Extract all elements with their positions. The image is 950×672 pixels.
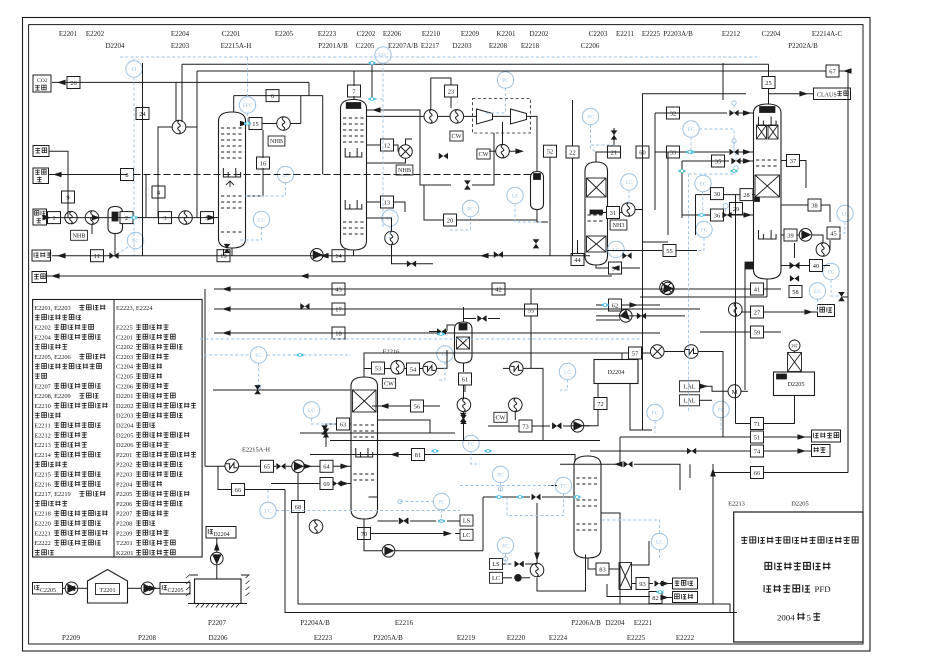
svg-text:51: 51 <box>754 434 760 441</box>
valve at 627,255.7 <box>622 252 631 259</box>
svg-text:57: 57 <box>632 350 639 357</box>
vessel C2203 <box>585 162 608 265</box>
svg-text:C2205: C2205 <box>356 42 375 50</box>
stream box flare 2 <box>32 272 47 283</box>
svg-text:PFD: PFD <box>815 584 831 594</box>
stream box drain <box>812 445 831 457</box>
wire flare2 line <box>46 275 612 277</box>
stream box purified gas <box>33 168 49 184</box>
stream flag 33 <box>667 146 680 158</box>
svg-text:35: 35 <box>715 158 721 165</box>
stream flag 69 <box>320 478 333 490</box>
signal FC704 link <box>676 238 704 251</box>
stream flag 8 <box>121 169 134 181</box>
instrument bubble PC <box>497 72 513 88</box>
valve at 519.2,564 <box>515 561 524 568</box>
svg-text:E2224: E2224 <box>549 634 568 642</box>
wire flag39 links <box>781 234 784 236</box>
heat exchanger at 429.7,368.4 <box>423 362 437 376</box>
instrument bubble LC <box>651 533 667 549</box>
signal LC268 top <box>267 490 269 502</box>
wire E2218 bottom <box>463 363 465 372</box>
svg-text:LC: LC <box>492 575 500 582</box>
valve at 794.5,278.5 <box>790 275 799 282</box>
signal LC817 link <box>817 299 819 312</box>
wire x322 drop <box>322 96 324 175</box>
svg-text:CW: CW <box>452 133 462 140</box>
svg-text:5: 5 <box>807 612 812 622</box>
column C2204 small packing <box>757 125 767 139</box>
stream flag 72 <box>594 398 607 410</box>
svg-text:40: 40 <box>813 263 819 270</box>
signal valve652 cluster <box>591 125 615 146</box>
valve at 536,243.8 <box>533 239 540 248</box>
wire flag12 line <box>367 144 382 146</box>
svg-text:P2208: P2208 <box>138 634 156 642</box>
stream flag 74 <box>751 445 764 457</box>
valve at 304.9,306.4 <box>300 303 309 310</box>
svg-text:P2202A/B: P2202A/B <box>788 42 818 50</box>
wire x695 drop <box>695 195 697 235</box>
svg-text:PFF: PFF <box>792 345 798 349</box>
svg-text:61: 61 <box>462 376 468 383</box>
drum D2205 claus gas separator <box>774 372 815 396</box>
instrument bubble FC <box>433 493 449 509</box>
signal blue y174 row <box>689 173 737 175</box>
signal LC444 link <box>437 362 445 380</box>
signal LC135 link <box>115 247 128 256</box>
vessel D2202 <box>531 172 544 210</box>
svg-text:P2206A/B: P2206A/B <box>571 619 601 627</box>
wire valve to C2203 <box>596 151 608 153</box>
signal PC505 drop <box>484 88 506 113</box>
instrument bubble LC <box>253 211 269 227</box>
stream flag 40 <box>810 260 823 272</box>
svg-text:E2223, E2224: E2223, E2224 <box>116 305 153 312</box>
svg-text:LC: LC <box>258 218 265 224</box>
wire top header 2 <box>197 70 826 72</box>
wire C2206 reflux row <box>483 496 530 498</box>
air cooler E2202 <box>65 211 77 223</box>
stream flag 63 <box>337 418 350 430</box>
stream flag 31 <box>607 207 620 219</box>
wire flag62 line <box>596 304 608 306</box>
stream flag 43 <box>332 283 345 295</box>
stream flag 55 <box>663 245 676 257</box>
svg-text:C2203: C2203 <box>116 354 133 361</box>
svg-text:M: M <box>732 389 738 396</box>
svg-text:66: 66 <box>754 470 760 477</box>
svg-text:23: 23 <box>448 88 454 95</box>
svg-text:D2204: D2204 <box>105 42 125 50</box>
wire d2204 left down <box>597 384 599 399</box>
wire T2201 to pump2 <box>128 587 142 589</box>
signal LC268 row <box>276 510 460 512</box>
blue control ticks <box>686 151 693 153</box>
instrument bubble LC <box>837 205 853 221</box>
svg-text:93: 93 <box>639 581 645 588</box>
svg-text:2: 2 <box>125 215 128 222</box>
signal FC505 link <box>506 554 513 564</box>
wire flag29 stub <box>735 214 737 215</box>
svg-text:18: 18 <box>335 330 341 337</box>
stream flag 9 <box>62 191 75 203</box>
stream box shift gas <box>33 209 47 225</box>
wire y242 small <box>643 241 669 243</box>
wire x668 vertical <box>667 152 669 235</box>
instrument bubble FC <box>647 404 663 420</box>
svg-text:E2214: E2214 <box>34 452 51 459</box>
stream flag 32 <box>667 107 680 119</box>
stream flag 25 <box>762 77 775 89</box>
svg-text:LC: LC <box>656 540 663 546</box>
wire hx463 404 down <box>463 412 465 415</box>
valve at 691.6,451 <box>687 448 696 455</box>
svg-text:P2204: P2204 <box>116 481 133 488</box>
wire valve794 stack <box>790 262 800 269</box>
wire C2204 to CLAUS <box>768 93 814 95</box>
wire flag19 rise <box>223 249 225 256</box>
wire flag51 up to C2206 <box>620 436 640 438</box>
svg-text:D2202: D2202 <box>116 403 133 410</box>
valve at 467.4,185 <box>464 180 471 189</box>
label box CW <box>494 412 507 422</box>
svg-text:6: 6 <box>271 93 274 100</box>
wire bottom right loop x690 <box>689 464 691 478</box>
signal LS515 link <box>515 204 544 222</box>
stream flag 30 <box>711 188 724 200</box>
wire flag59 line <box>700 331 751 333</box>
signal FC655 link <box>654 421 656 433</box>
svg-text:E2215: E2215 <box>34 472 51 479</box>
label box LC <box>490 572 503 583</box>
pump at 298,466.3 <box>292 460 305 473</box>
signal FC703 link <box>702 192 704 213</box>
svg-text:T2201: T2201 <box>116 540 133 547</box>
instrument bubble FC <box>492 466 508 482</box>
heat exchanger at 666.5,287.5 <box>660 281 674 295</box>
stream flag 35 <box>712 155 725 167</box>
label box LAL <box>680 381 700 392</box>
svg-text:E2211: E2211 <box>616 30 635 38</box>
svg-text:E2208, E2209: E2208, E2209 <box>34 393 71 400</box>
wire E2201 E2203 loop right <box>196 71 198 218</box>
stream box to C2205 left <box>33 583 63 595</box>
heat exchanger at 283.5,123.5 <box>277 117 291 131</box>
wire flag66b line <box>713 472 751 474</box>
svg-text:68: 68 <box>295 504 301 511</box>
svg-text:D2203: D2203 <box>116 413 133 420</box>
stream flag 34 <box>609 262 622 274</box>
instrument bubble LC <box>437 346 453 362</box>
stream flag 60 <box>636 146 649 158</box>
svg-text:C2204: C2204 <box>762 30 781 38</box>
title block <box>734 512 863 642</box>
stream flag 7 <box>348 85 361 97</box>
stream flag 3 <box>159 212 172 224</box>
signal FFC2 drop <box>367 63 384 99</box>
stream flag 64 <box>320 460 333 472</box>
instrument bubble FC <box>497 537 513 553</box>
wire hx537 bottom loop <box>537 555 586 592</box>
svg-text:E2213: E2213 <box>728 501 745 508</box>
svg-text:E2213: E2213 <box>34 442 51 449</box>
pump at 577.5,425.8 <box>571 420 584 433</box>
wire hx283 riser <box>290 123 301 125</box>
wire flag23 up <box>450 97 452 108</box>
svg-text:42: 42 <box>495 286 501 293</box>
svg-text:K2201: K2201 <box>116 550 133 557</box>
svg-text:E2215A-H: E2215A-H <box>242 447 270 454</box>
motor pump M <box>728 385 741 398</box>
instrument bubble LC <box>127 232 143 248</box>
stream flag 52 <box>544 145 557 157</box>
instrument bubble FC <box>823 263 839 279</box>
wire black ball valve <box>515 574 522 581</box>
svg-text:C2203: C2203 <box>589 30 608 38</box>
svg-text:39: 39 <box>787 232 793 239</box>
stream box desalted water <box>673 592 698 603</box>
svg-text:C2204: C2204 <box>116 364 134 371</box>
wire flag70 link down <box>363 519 365 534</box>
svg-text:LC: LC <box>282 173 289 179</box>
stream flag 62 <box>609 299 622 311</box>
wire purge drop <box>145 175 147 218</box>
wire flag31 hx628 <box>601 212 607 214</box>
heat exchanger at 691.3,351.5 <box>685 345 699 359</box>
wire flag52 drop <box>549 157 551 256</box>
stream flag 21 <box>608 146 621 158</box>
wire x723b vertical <box>722 351 724 437</box>
signal LC390 link <box>385 226 390 238</box>
wire flare1 line <box>49 151 68 217</box>
wire LAL links <box>700 386 729 391</box>
stream flag 56 <box>411 400 424 412</box>
vessel C2204 <box>754 104 782 279</box>
wire C2204 bottom row <box>640 296 767 298</box>
instrument bubble LC <box>621 174 637 190</box>
svg-text:E2222: E2222 <box>676 634 695 642</box>
wire right cluster 40 <box>781 265 810 267</box>
stream flag 82 <box>649 592 662 604</box>
wire compressor train <box>438 115 450 117</box>
stream box CLAUS gas <box>814 88 851 100</box>
svg-text:58: 58 <box>792 289 798 296</box>
stream flag 20 <box>444 214 457 226</box>
svg-text:LC: LC <box>387 216 394 222</box>
stream flag 70 <box>358 528 371 540</box>
stream flag 66 <box>751 467 764 479</box>
svg-text:FC: FC <box>255 353 262 359</box>
svg-text:20: 20 <box>447 217 453 224</box>
wire flag53 54 row <box>364 368 371 370</box>
svg-text:P2201: P2201 <box>116 452 132 459</box>
svg-text:E2210: E2210 <box>422 30 441 38</box>
wire C2202 to compressor suction <box>367 115 425 117</box>
svg-text:82: 82 <box>652 595 658 602</box>
svg-text:FC: FC <box>438 500 445 506</box>
wire CV right riser <box>632 541 650 565</box>
heat exchanger at 231.8,465.8 <box>225 459 239 473</box>
signal valve734 stems <box>733 143 735 152</box>
stream flag 61 <box>459 373 472 385</box>
svg-text:LC: LC <box>265 509 272 515</box>
svg-text:E2223: E2223 <box>318 30 337 38</box>
wire flag24 vertical <box>142 63 144 256</box>
wire flag41 line <box>738 288 751 290</box>
wire flag33 line <box>645 151 647 153</box>
signal LC659 link <box>601 520 660 533</box>
heat exchanger at 179,127 <box>172 120 186 134</box>
heat exchanger at 391.5,238 <box>385 231 399 245</box>
svg-text:E2211: E2211 <box>34 423 50 430</box>
svg-text:66: 66 <box>235 487 241 494</box>
svg-text:28: 28 <box>743 192 749 199</box>
valve at 443.4,156 <box>439 153 448 160</box>
heat exchanger at 316,526.5 <box>309 520 323 534</box>
heat exchanger at 516.3,368.4 <box>510 362 524 376</box>
stream flag 38 <box>808 199 821 211</box>
wire mid header 17 <box>214 308 700 310</box>
wire flag55a drop <box>530 289 532 304</box>
heat exchanger at 628.3,209.5 <box>622 203 636 217</box>
signal FC471 link <box>471 452 480 464</box>
svg-text:CLAUS: CLAUS <box>817 92 837 98</box>
valve at 227,248.5 <box>224 244 231 253</box>
svg-text:P2207: P2207 <box>116 511 133 518</box>
signal FC721 link <box>720 418 722 430</box>
svg-text:C2206: C2206 <box>581 42 600 50</box>
svg-text:71: 71 <box>754 421 760 428</box>
svg-text:E2217: E2217 <box>421 42 440 50</box>
valve at 257.6,389.7 <box>254 385 261 394</box>
svg-text:E2210: E2210 <box>34 403 51 410</box>
svg-text:NHB: NHB <box>270 138 283 145</box>
vessel E2218 <box>455 322 473 363</box>
instrument bubble FFC <box>375 47 391 63</box>
svg-text:26: 26 <box>70 80 76 87</box>
stream flag 13 <box>381 196 394 208</box>
stream box vent gas <box>812 430 841 442</box>
svg-text:14: 14 <box>335 253 342 260</box>
wire mid header 18 <box>214 332 660 334</box>
label box NHB <box>71 230 88 240</box>
svg-text:LC: LC <box>814 289 821 295</box>
svg-text:E2212: E2212 <box>34 432 51 439</box>
svg-text:PC: PC <box>467 207 474 213</box>
wire C2205 feed y390 <box>213 389 351 391</box>
svg-text:E2221: E2221 <box>634 619 653 627</box>
svg-text:P2202: P2202 <box>116 462 132 469</box>
stream flag 37 <box>787 155 800 167</box>
svg-text:E2204: E2204 <box>34 334 51 341</box>
svg-text:D2202: D2202 <box>529 30 549 38</box>
wire C2203 bottom to flag34 <box>596 265 608 268</box>
svg-text:LS: LS <box>512 194 518 200</box>
wire x642 long vertical <box>642 94 644 250</box>
stream flag 26 <box>67 77 80 89</box>
stream flag 45 <box>827 227 840 239</box>
wire hx391 bottom branch <box>392 245 434 264</box>
wire D2205 top valve <box>794 371 796 374</box>
svg-text:69: 69 <box>323 481 329 488</box>
svg-text:T2201: T2201 <box>99 587 115 594</box>
svg-text:55: 55 <box>528 307 534 314</box>
wire flag27 line <box>742 311 751 313</box>
wire C2201 feed flag15 <box>246 123 250 125</box>
stream flag 57 <box>629 347 642 359</box>
wire hx628 right <box>635 209 642 211</box>
svg-text:D2205: D2205 <box>791 501 808 508</box>
stream flag 67 <box>826 65 839 77</box>
stream flag 22 <box>566 146 579 158</box>
wire mid header 43 <box>214 288 750 290</box>
instrument bubble FFC <box>239 97 255 113</box>
stream flag 15 <box>249 118 262 130</box>
svg-text:2004: 2004 <box>777 612 795 622</box>
svg-text:E2216: E2216 <box>34 481 51 488</box>
instrument bubble TC <box>555 477 571 493</box>
D2205 inlet control valve <box>788 353 802 372</box>
vessel D2201 <box>108 207 123 234</box>
wire flag45 circle link <box>829 240 831 250</box>
stream flag 12 <box>381 139 394 151</box>
svg-text:E2221: E2221 <box>34 530 51 537</box>
wire C2203 top feed <box>596 152 620 162</box>
signal FFC1 drop <box>247 113 249 124</box>
valve at 556.7,425.7 <box>552 422 561 429</box>
svg-text:CW: CW <box>496 415 506 422</box>
svg-text:FFC: FFC <box>243 103 253 109</box>
wire flag69 line <box>271 483 320 485</box>
svg-text:74: 74 <box>754 448 761 455</box>
wire E2218 top entry <box>463 307 465 322</box>
valve at 841.5,296.6 <box>838 292 845 301</box>
wire x642 extension <box>642 250 644 430</box>
heat exchanger at 397.5,367.3 <box>391 361 405 375</box>
valve at 463.2,417.4 <box>460 413 467 422</box>
svg-text:E2201, E2203: E2201, E2203 <box>34 305 71 312</box>
wire right header drop <box>847 71 849 473</box>
wire flag66a link <box>218 466 231 489</box>
wire go-C2205 left row <box>63 587 66 589</box>
stream flag 29 <box>730 203 743 215</box>
wire E2201 E2203 loop left <box>158 127 172 218</box>
wire flag74 line <box>590 450 751 452</box>
svg-text:FC: FC <box>497 473 504 479</box>
wire E2218 feed top <box>447 325 455 331</box>
instrument bubble LC <box>809 283 825 299</box>
wire compressor inter <box>493 115 511 117</box>
svg-text:E2225: E2225 <box>116 325 133 332</box>
stream flag 55 <box>525 304 538 316</box>
wire flag37 line <box>781 160 787 162</box>
wire pump537 riser <box>536 556 538 564</box>
wire D2201 bottom valve drop <box>114 234 116 256</box>
wire x723 vertical <box>722 63 724 100</box>
wire flag51 line <box>640 436 751 438</box>
stream flag 4 <box>152 186 165 198</box>
svg-text:FI: FI <box>132 67 137 73</box>
svg-text:E2220: E2220 <box>507 634 526 642</box>
wire flag13 line <box>367 201 382 203</box>
svg-text:P2201A/B: P2201A/B <box>318 42 348 50</box>
svg-text:P2205A/B: P2205A/B <box>373 634 403 642</box>
wire TC col link <box>548 485 557 487</box>
wire flag70 row2 <box>370 533 448 535</box>
signal LC629 link <box>628 190 630 205</box>
svg-text:CW: CW <box>479 151 489 158</box>
